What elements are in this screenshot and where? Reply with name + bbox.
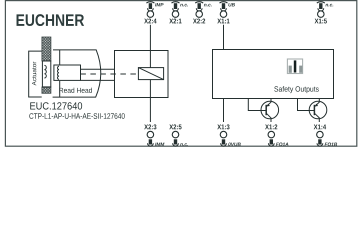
- type designation CTP-L1-AP-U-HA-AE-SII-127640: [29, 113, 124, 119]
- terminal X1:5 circle: [318, 11, 325, 18]
- read head outline: [53, 50, 101, 97]
- terminal X1:3 socket arc: [221, 143, 227, 146]
- wire from X2:4 down: [149, 25, 151, 51]
- transistor Q2 emitter lead: [314, 98, 319, 107]
- terminal X2:2 plug: [195, 2, 203, 3]
- transistor Q1 base bar: [265, 105, 267, 115]
- wire read head lower: [81, 79, 115, 81]
- terminal X2:4 circle: [147, 11, 154, 18]
- terminal X2:1 plug: [172, 2, 180, 3]
- transistor Q1 circle: [261, 101, 279, 119]
- terminal X2:2 signal label n.c.: [204, 4, 212, 7]
- terminal X1:2 signal label FO1A: [276, 143, 288, 146]
- terminal X1:3 circle: [220, 131, 227, 138]
- transistor Q1 base wire: [248, 98, 266, 111]
- terminal X2:5 socket arc: [173, 143, 179, 146]
- terminal X1:5 plug: [317, 2, 325, 3]
- transistor Q2 PNP arrow: [315, 104, 318, 107]
- border frame: [5, 1, 356, 147]
- terminal X2:4 socket arc: [148, 8, 154, 11]
- terminal X2:3 socket arc: [148, 143, 154, 146]
- terminal X1:1 signal label UB: [228, 3, 234, 6]
- terminal X1:1 socket arc: [221, 8, 227, 11]
- terminal X1:4 circle: [317, 131, 324, 138]
- terminal X2:3 name label: [144, 124, 156, 129]
- terminal X1:1 circle: [220, 11, 227, 18]
- terminal X1:5 socket arc: [318, 8, 324, 11]
- terminal X1:4 signal label FO1B: [325, 143, 338, 146]
- transistor Q2 collector lead: [314, 113, 319, 122]
- transistor Q1 collector lead: [266, 113, 271, 122]
- terminal X1:2 plug pin: [270, 139, 273, 144]
- wire to solenoid top: [149, 51, 151, 68]
- terminal X2:3 plug pin: [149, 139, 152, 144]
- terminal X2:5 circle: [172, 131, 179, 138]
- terminal X2:4 plug: [146, 2, 154, 3]
- terminal X2:1 circle: [172, 11, 179, 18]
- terminal X1:3 plug pin: [222, 139, 225, 144]
- article number EUC.127640: [30, 102, 82, 109]
- terminal X2:3 signal label IMM: [155, 143, 164, 146]
- terminal X1:2 socket arc: [268, 143, 274, 146]
- read head coil box: [54, 65, 81, 80]
- terminal X1:4 socket arc: [317, 143, 323, 146]
- wire down to X1:3: [223, 99, 225, 123]
- terminal X2:1 signal label n.c.: [180, 4, 188, 7]
- terminal X1:2 name label: [265, 124, 277, 129]
- terminal X2:4 name label: [144, 19, 156, 24]
- terminal X1:2 circle: [268, 131, 275, 138]
- transistor Q2 base wire: [298, 98, 315, 111]
- guard lock icon: [287, 59, 302, 74]
- terminal X2:3 circle: [147, 131, 154, 138]
- actuator label: [32, 62, 36, 86]
- read head label: [59, 88, 92, 93]
- transistor Q2 circle: [309, 101, 327, 119]
- actuator hatched bar upper part: [42, 37, 51, 61]
- terminal X1:1 name label: [217, 19, 229, 24]
- transistor Q2 base bar: [313, 105, 315, 115]
- terminal X2:2 socket arc: [196, 8, 202, 11]
- terminal X2:2 name label: [193, 19, 205, 24]
- read head coil: [57, 66, 59, 79]
- terminal X2:1 socket arc: [173, 8, 179, 11]
- transistor Q1 PNP arrow: [267, 104, 270, 107]
- transistor Q1 emitter lead: [266, 98, 271, 107]
- inductive coupling dashed line: [80, 73, 138, 75]
- terminal X2:2 circle: [196, 11, 203, 18]
- terminal X2:5 signal label n.c.: [180, 143, 188, 146]
- terminal X2:4 signal label IMP: [155, 3, 163, 6]
- terminal X1:1 plug: [220, 2, 228, 3]
- terminal X1:3 name label: [217, 124, 229, 129]
- EUCHNER logo: [17, 14, 85, 26]
- actuator hatched bar lower part: [42, 87, 51, 93]
- terminal X1:4 plug pin: [318, 139, 321, 144]
- guard locking module box: [115, 51, 169, 98]
- actuator bracket: [29, 51, 42, 97]
- safety outputs box: [213, 50, 334, 99]
- terminal X2:1 name label: [169, 19, 181, 24]
- terminal X1:5 signal label n.c.: [325, 4, 333, 7]
- terminal X1:5 name label: [315, 19, 327, 24]
- wire from X1:1 down: [223, 25, 225, 50]
- safety outputs label: [274, 86, 318, 93]
- guard locking solenoid symbol: [138, 68, 163, 80]
- terminal X2:5 plug pin: [174, 139, 177, 144]
- actuator coil: [44, 65, 46, 78]
- terminal X1:4 name label: [314, 124, 326, 129]
- terminal X2:5 name label: [169, 124, 181, 129]
- terminal X1:3 signal label 0VUB: [228, 143, 240, 146]
- wire down to X2:3: [149, 98, 151, 123]
- wire read head upper: [81, 68, 115, 70]
- wire from solenoid bottom: [149, 80, 151, 98]
- actuator coil box: [42, 61, 50, 87]
